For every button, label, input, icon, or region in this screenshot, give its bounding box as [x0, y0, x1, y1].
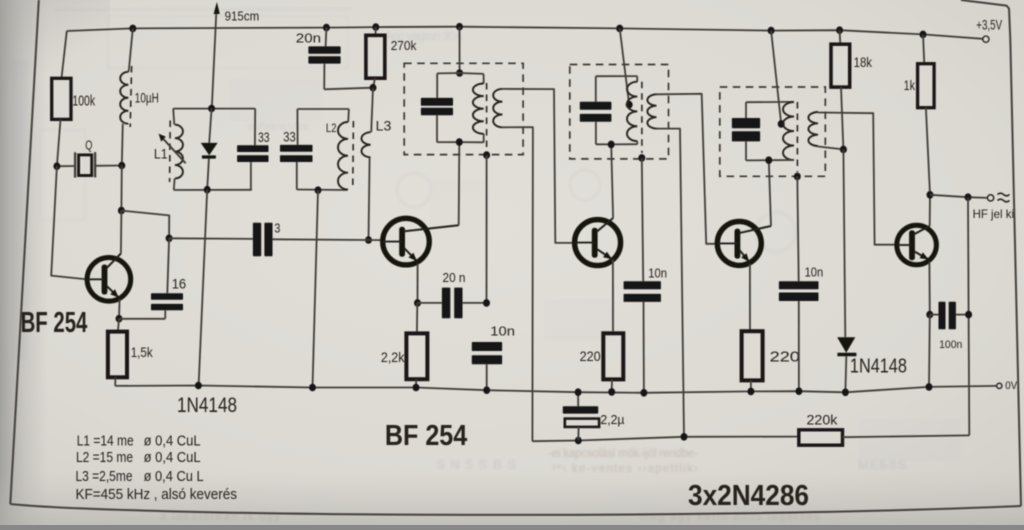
svg-text:16: 16 — [172, 275, 187, 291]
svg-text:270k: 270k — [391, 39, 417, 53]
terminal HF jel ki — [973, 193, 1014, 221]
svg-text:1N4148: 1N4148 — [850, 356, 907, 378]
wire Q5 emitter to 0V — [928, 315, 931, 387]
transistor Q1 BF254 — [87, 254, 131, 302]
node Q5/0V — [926, 383, 933, 391]
wire Q2 emitter down — [417, 264, 419, 303]
node tank1 bottom — [204, 186, 211, 194]
wire 0V bottom rail — [115, 386, 997, 393]
T2 core — [641, 82, 643, 153]
wire Q2 collector riser — [458, 142, 461, 225]
wire T1 secondary top to Q3 base — [502, 89, 574, 243]
wire tank2 to 0V — [313, 190, 319, 387]
svg-text:L1 =14 me: L1 =14 me — [77, 434, 134, 450]
capacitor T3 tuning — [732, 102, 760, 160]
resistor 220 (Q3) — [580, 333, 624, 392]
capacitor 100n — [930, 302, 969, 351]
wire T3 secondary top to Q5 base — [818, 113, 896, 245]
inductor T1 primary — [473, 74, 484, 142]
wire T2 secondary bottom to AGC — [657, 129, 685, 437]
svg-text:-ei kapcsolási mók-ijól rendbe: -ei kapcsolási mók-ijól rendbe- — [548, 448, 698, 460]
wire tank2 bottom — [297, 189, 347, 192]
svg-text:915cm: 915cm — [225, 9, 260, 24]
wire T2 top — [596, 75, 637, 77]
wire to Q2 base — [369, 239, 384, 241]
svg-text:20n: 20n — [296, 30, 321, 45]
wire jog down to Q1 collector — [120, 211, 123, 254]
svg-text:18k: 18k — [854, 54, 873, 70]
svg-text:2,2µ: 2,2µ — [600, 412, 625, 427]
resistor 220k — [799, 412, 970, 445]
wire T2 feed from rail — [620, 28, 630, 104]
node AGC/2,2µ — [575, 437, 582, 445]
wire 100k/crystal to Q1 base — [51, 166, 87, 279]
svg-text:ø 0,4 CuL: ø 0,4 CuL — [144, 434, 201, 450]
node 10n/0V (T2) — [640, 389, 647, 397]
node rail/T2 — [616, 25, 623, 33]
node Q2 emitter — [414, 299, 421, 307]
node L3/Q2 base — [365, 236, 372, 244]
inductor L3 — [361, 88, 391, 240]
node 2,2µ/0V — [575, 388, 582, 396]
wire T3 bottom — [746, 159, 794, 161]
node T3 core tap — [794, 173, 801, 181]
svg-text:10n: 10n — [805, 265, 824, 280]
capacitor 2,2µ electrolytic — [563, 392, 625, 440]
svg-text:2,2k: 2,2k — [381, 349, 405, 365]
terminal 0V — [997, 380, 1018, 392]
wire T1 secondary bottom to AGC line — [502, 127, 533, 441]
inductor T3 primary — [783, 102, 794, 160]
wire T1 feed from rail — [459, 27, 461, 73]
IF transformer T3 shield box — [720, 87, 826, 176]
resistor 18k — [831, 30, 873, 149]
wire T3 core to bypass — [797, 176, 798, 281]
node Q1 emitter — [116, 315, 123, 323]
T3 core — [796, 102, 798, 172]
svg-text:ø 0,4 Cu L: ø 0,4 Cu L — [144, 469, 204, 485]
node 10n/0V (T3) — [795, 387, 802, 395]
resistor 1k — [904, 34, 935, 194]
inductor T1 secondary — [493, 89, 502, 127]
wire output node to terminal — [930, 195, 988, 198]
node crystal-right — [118, 162, 125, 170]
svg-text:+3,5V: +3,5V — [976, 18, 1002, 33]
svg-text:33: 33 — [258, 129, 270, 145]
wire tank1 top — [173, 108, 255, 110]
svg-text:100n: 100n — [939, 339, 962, 351]
capacitor 20n (Q2 emitter) — [418, 270, 487, 318]
svg-text:BF 254: BF 254 — [21, 307, 88, 339]
node T1 bottom — [456, 138, 463, 146]
svg-text:33: 33 — [283, 129, 296, 145]
svg-text:1N4148: 1N4148 — [177, 394, 237, 417]
wire T2 core to bypass — [642, 158, 643, 281]
node T3 bottom — [765, 156, 772, 164]
node T1 core tap — [483, 151, 490, 159]
wire T1 top — [437, 72, 483, 75]
svg-text:10n: 10n — [648, 266, 667, 281]
svg-text:1k: 1k — [904, 77, 916, 93]
node T1 top — [456, 69, 463, 77]
node rail/1k — [920, 31, 927, 39]
resistor 2,2k — [381, 303, 428, 388]
resistor 1,5k — [108, 319, 154, 386]
wire T3 secondary bottom — [818, 147, 843, 150]
node T2 bottom — [608, 141, 615, 149]
svg-text:10n: 10n — [490, 323, 515, 338]
transistor Q3 2N4286 — [575, 218, 621, 266]
resistor 220 (Q4) — [742, 331, 800, 391]
inductor L1 (variable) — [154, 109, 186, 190]
crystal Q — [57, 137, 122, 177]
wire T1 core to bypass — [486, 155, 488, 303]
svg-text:KF=455 kHz , alsó keverés: KF=455 kHz , alsó keverés — [76, 487, 238, 503]
T1 core — [486, 83, 488, 150]
capacitor 10n (T2 core bypass) — [624, 266, 667, 393]
node 20n/10n/core — [483, 299, 490, 307]
capacitor T1 tuning — [421, 73, 453, 142]
node T2 core tap — [638, 154, 645, 162]
capacitor 33 (tank2) — [280, 109, 313, 190]
node AGC/T2 secondary — [681, 433, 688, 441]
transistor Q5 2N4286 — [897, 225, 937, 265]
svg-text:HF jel ki: HF jel ki — [973, 207, 1014, 221]
terminal +3.5V — [976, 18, 1002, 43]
node D2/0V — [842, 389, 849, 397]
diode D2 1N4148 — [837, 149, 907, 392]
svg-text:1,5k: 1,5k — [131, 344, 154, 360]
svg-text:L2: L2 — [326, 123, 337, 135]
node Q5 collector/output — [927, 191, 934, 199]
diode varicap D1 — [201, 109, 218, 190]
node 2,2k/0V — [413, 384, 420, 392]
capacitor 20n (top) — [296, 28, 373, 90]
capacitor 3 (series) — [169, 220, 368, 256]
inductor T3 secondary — [808, 112, 818, 146]
svg-text:ø 0,4 CuL: ø 0,4 CuL — [144, 450, 201, 466]
node 18k/T3 secondary — [840, 146, 847, 154]
svg-text:3: 3 — [274, 220, 280, 235]
node output/100n column — [965, 193, 972, 201]
node rail/10µH — [129, 25, 136, 33]
wire Q4 collector riser — [769, 160, 771, 226]
svg-text:220: 220 — [580, 348, 601, 364]
node tank2 bottom — [315, 186, 322, 194]
resistor 270k — [366, 27, 417, 88]
node jog — [118, 207, 125, 215]
svg-text:100k: 100k — [72, 92, 95, 109]
wire varicap to 0V — [199, 190, 208, 386]
wire crystal node down to jog — [120, 166, 122, 211]
wire T2 secondary top to Q4 base — [657, 94, 718, 244]
capacitor 33 (tank1) — [237, 109, 270, 190]
wire output column — [968, 197, 969, 435]
node base coupling — [166, 235, 173, 243]
node rail/20n — [323, 24, 330, 32]
wire T2 bottom — [596, 143, 637, 145]
node 100n/output column — [965, 311, 972, 319]
wire +3.5V top rail — [67, 27, 988, 40]
node 10n/0V — [483, 386, 490, 394]
node 220/0V (Q4) — [747, 388, 754, 396]
inductor L2 — [326, 109, 354, 190]
wire T1 bottom — [437, 141, 484, 143]
node rail/18k — [836, 26, 843, 34]
svg-text:BF 254: BF 254 — [385, 420, 467, 452]
wire jog to cap-3 node — [121, 211, 169, 239]
capacitor 10n (T1 core bypass) — [472, 323, 515, 390]
capacitor 10n (T3 core bypass) — [779, 265, 823, 392]
svg-text:0V: 0V — [1005, 380, 1017, 392]
svg-text:3x2N4286: 3x2N4286 — [688, 480, 809, 512]
svg-text:L3 =2,5me: L3 =2,5me — [76, 469, 133, 485]
capacitor 16 — [119, 238, 186, 318]
transistor Q2 BF254 — [383, 218, 459, 265]
node tank2/0V — [309, 384, 316, 392]
node rail/270k — [372, 23, 379, 31]
svg-text:220: 220 — [770, 349, 800, 366]
border frame left edge — [10, 0, 39, 504]
svg-text:10µH: 10µH — [135, 89, 159, 105]
node varicap/0V — [195, 382, 202, 390]
wire AGC line — [532, 437, 798, 442]
wire tank1 bottom — [174, 189, 252, 191]
resistor 100k — [52, 31, 96, 166]
svg-text:L2 =15 me: L2 =15 me — [76, 450, 133, 466]
border frame right edge — [1010, 39, 1021, 506]
capacitor T2 tuning — [580, 76, 612, 144]
IF transformer T2 shield box — [570, 65, 669, 159]
inductor T2 primary — [627, 76, 637, 144]
svg-text:220k: 220k — [807, 412, 839, 428]
wire tank2 top — [297, 108, 349, 110]
border frame top-right corner — [961, 0, 1010, 39]
node Q5 emitter/100n — [926, 311, 933, 319]
node rail/T3 — [768, 27, 775, 35]
antenna 915cm — [212, 2, 259, 108]
svg-text:Q: Q — [85, 137, 92, 152]
wire Q1 emitter down — [118, 300, 121, 319]
node rail/T1 — [456, 23, 463, 31]
wire Q3 emitter down — [612, 260, 614, 334]
inductor 10µH — [120, 28, 159, 165]
inductor T2 secondary — [647, 94, 656, 128]
svg-text:L1: L1 — [154, 146, 168, 162]
wire Q5 collector riser — [929, 195, 931, 226]
node crystal-left — [53, 162, 60, 170]
IF transformer T1 shield box — [404, 63, 523, 154]
wire Q3 collector riser — [611, 144, 613, 218]
node T3 primary tap — [778, 120, 785, 128]
wire Q4 emitter down — [749, 264, 751, 331]
node antenna/tank1 — [208, 105, 215, 113]
node T2 primary tap — [626, 101, 633, 109]
wire T3 top — [746, 101, 794, 103]
svg-text:20 n: 20 n — [443, 270, 466, 285]
node 270k/20n/L3 — [370, 84, 377, 92]
wire Q5 emitter down — [928, 262, 930, 315]
border frame bottom edge — [10, 504, 1021, 515]
svg-text:L3: L3 — [376, 118, 392, 134]
wire T3 feed from rail — [771, 31, 781, 124]
node 220/0V — [608, 388, 615, 396]
transistor Q4 2N4286 — [717, 221, 771, 265]
